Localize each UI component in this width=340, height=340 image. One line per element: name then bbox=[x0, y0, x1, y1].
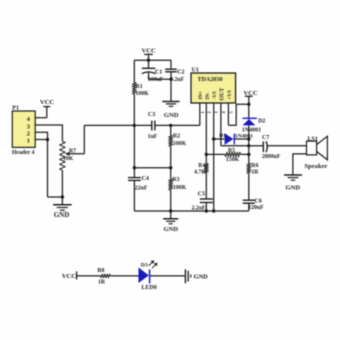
wire pin4 to VCC bbox=[35, 117, 47, 119]
svg-text:C1: C1 bbox=[155, 69, 162, 75]
svg-text:GND: GND bbox=[163, 226, 178, 233]
svg-text:1: 1 bbox=[200, 111, 205, 113]
svg-text:120uF: 120uF bbox=[248, 205, 264, 211]
svg-text:3: 3 bbox=[214, 111, 219, 114]
svg-text:1R: 1R bbox=[98, 279, 106, 285]
power VCC port (LED) bbox=[62, 271, 101, 280]
junction VCC column bbox=[247, 103, 250, 106]
svg-text:1: 1 bbox=[27, 138, 30, 145]
wire LED to GND port bbox=[150, 275, 184, 277]
svg-text:C4: C4 bbox=[142, 176, 149, 182]
wire feedback node bbox=[134, 167, 170, 169]
pin 5 stub bbox=[228, 103, 233, 125]
svg-text:2000uF: 2000uF bbox=[262, 154, 281, 160]
wire input net bbox=[84, 124, 151, 126]
svg-text:R4: R4 bbox=[198, 163, 205, 169]
junction R2 top bbox=[169, 124, 172, 127]
diode D2 bbox=[242, 118, 266, 133]
svg-text:D1: D1 bbox=[219, 133, 226, 139]
ground (C1 C2) bbox=[162, 79, 179, 119]
svg-text:R8: R8 bbox=[97, 268, 104, 274]
svg-text:VCC: VCC bbox=[141, 47, 156, 54]
svg-text:100K: 100K bbox=[136, 91, 150, 97]
junction pin1-pin2 bbox=[46, 138, 49, 141]
power VCC (header) bbox=[40, 99, 55, 118]
wire R8 to LED bbox=[110, 275, 138, 277]
connector P1 bbox=[12, 105, 35, 156]
junction output OUT bbox=[247, 144, 250, 147]
svg-text:1R: 1R bbox=[251, 170, 259, 176]
pin 4 stub bbox=[221, 103, 226, 146]
svg-text:IN-: IN- bbox=[205, 92, 211, 100]
capacitor C7 bbox=[262, 135, 281, 160]
svg-text:GND: GND bbox=[164, 112, 179, 119]
svg-text:Header 4: Header 4 bbox=[12, 150, 35, 156]
svg-text:100K: 100K bbox=[173, 185, 187, 191]
wire pin1 bbox=[35, 139, 47, 141]
svg-text:LS1: LS1 bbox=[308, 136, 318, 142]
svg-text:LED0: LED0 bbox=[141, 285, 156, 291]
junction R4 R5 bbox=[205, 153, 208, 156]
svg-text:C6: C6 bbox=[255, 198, 262, 204]
svg-text:D2: D2 bbox=[258, 118, 265, 124]
capacitor C6 bbox=[243, 173, 264, 211]
ground port (LED) bbox=[185, 269, 208, 283]
svg-text:TDA2030: TDA2030 bbox=[197, 77, 222, 83]
ground (rail) bbox=[163, 211, 178, 233]
diode D1 bbox=[214, 133, 253, 145]
svg-text:R2: R2 bbox=[173, 133, 180, 139]
junction pin3 D1 bbox=[212, 137, 215, 140]
junction output R5 bbox=[247, 153, 250, 156]
wire R3 to ground rail bbox=[170, 190, 172, 211]
svg-text:4.7K: 4.7K bbox=[194, 169, 206, 175]
capacitor C5 bbox=[192, 173, 213, 211]
pin 1 stub bbox=[200, 103, 205, 125]
svg-text:D3: D3 bbox=[141, 262, 148, 268]
svg-text:5: 5 bbox=[229, 111, 234, 114]
junction R1 input bbox=[133, 124, 136, 127]
svg-text:R3: R3 bbox=[173, 177, 180, 183]
junction ground left bbox=[61, 195, 64, 198]
svg-text:2: 2 bbox=[207, 111, 212, 113]
svg-text:-VS: -VS bbox=[212, 91, 218, 99]
resistor R8 bbox=[97, 268, 110, 285]
wire R7 bottom to ground bbox=[61, 170, 63, 197]
wire R7 wiper to input net bbox=[83, 125, 85, 153]
capacitor C1 bbox=[142, 60, 164, 83]
svg-text:100K: 100K bbox=[173, 141, 187, 147]
power VCC (amp) bbox=[243, 90, 258, 118]
ground (header) bbox=[53, 197, 72, 219]
junction VCC rail bbox=[147, 59, 150, 62]
wire R1 to input net bbox=[133, 94, 135, 125]
svg-text:1uF: 1uF bbox=[148, 134, 158, 140]
wire speaker return bbox=[293, 154, 307, 175]
svg-text:VCC: VCC bbox=[40, 99, 55, 106]
junction rail R3 bbox=[169, 209, 172, 212]
svg-text:OUT: OUT bbox=[220, 88, 226, 101]
resistor R5 bbox=[206, 148, 249, 163]
resistor R3 bbox=[169, 168, 187, 191]
svg-text:4: 4 bbox=[221, 111, 226, 114]
junction feedback R3 bbox=[169, 166, 172, 169]
svg-text:R6: R6 bbox=[251, 163, 258, 169]
wire ground rail left bbox=[48, 196, 63, 198]
svg-text:GND: GND bbox=[194, 273, 209, 280]
wire C1 bottom bbox=[149, 78, 172, 80]
svg-text:P1: P1 bbox=[12, 105, 19, 111]
ground (speaker) bbox=[284, 175, 302, 191]
resistor R1 bbox=[132, 83, 149, 98]
wire output to C7 bbox=[249, 145, 263, 147]
wire pin5 detour to VCC bbox=[228, 104, 248, 125]
wire C7 to speaker bbox=[267, 145, 306, 147]
svg-text:22uF: 22uF bbox=[135, 185, 148, 191]
svg-text:150K: 150K bbox=[226, 157, 240, 163]
LED D3 bbox=[139, 260, 158, 291]
resistor R2 bbox=[169, 125, 187, 147]
potentiometer R7 bbox=[60, 141, 85, 170]
svg-text:2.2uF: 2.2uF bbox=[192, 205, 206, 211]
svg-text:R7: R7 bbox=[69, 149, 76, 155]
svg-text:C5: C5 bbox=[198, 191, 205, 197]
junction C1-C2 bottom bbox=[169, 78, 172, 81]
capacitor C3 bbox=[148, 112, 158, 140]
wire pin3 to R7 bbox=[35, 125, 62, 141]
wire rail to R1 bbox=[133, 60, 135, 82]
wire OUT pin to output node bbox=[221, 145, 249, 147]
svg-text:R5: R5 bbox=[228, 148, 235, 154]
svg-text:C7: C7 bbox=[262, 135, 269, 141]
wire pin2 down bbox=[35, 132, 47, 197]
resistor R4 bbox=[194, 154, 208, 175]
pin 3 stub bbox=[214, 103, 219, 211]
capacitor C4 bbox=[128, 125, 149, 211]
wire output column bbox=[248, 125, 250, 163]
IC U1 TDA2030 bbox=[191, 68, 236, 103]
junction rail pin3 bbox=[212, 209, 215, 212]
resistor R6 bbox=[247, 163, 259, 176]
svg-text:+VS: +VS bbox=[227, 90, 233, 100]
svg-text:C3: C3 bbox=[148, 112, 155, 118]
wire VCC rail bbox=[134, 59, 171, 61]
svg-text:0.2uF: 0.2uF bbox=[170, 77, 184, 83]
svg-text:IN+: IN+ bbox=[198, 91, 204, 100]
svg-text:GND: GND bbox=[54, 211, 70, 219]
capacitor C2 bbox=[165, 60, 184, 83]
wire R2 to feedback node bbox=[170, 146, 172, 168]
junction rail C5 bbox=[205, 209, 208, 212]
svg-text:10K: 10K bbox=[63, 156, 74, 162]
svg-text:C2: C2 bbox=[177, 69, 184, 75]
svg-text:Speaker: Speaker bbox=[304, 163, 327, 170]
svg-text:3: 3 bbox=[27, 123, 30, 130]
speaker LS1 bbox=[304, 136, 327, 170]
wire ground rail bbox=[134, 210, 248, 212]
svg-text:VCC: VCC bbox=[62, 273, 77, 280]
svg-text:100uF: 100uF bbox=[148, 77, 164, 83]
wire C3 to IN+ bbox=[155, 124, 199, 126]
junction output D1 bbox=[247, 137, 250, 140]
pin 2 stub bbox=[206, 103, 211, 154]
svg-text:GND: GND bbox=[285, 184, 300, 191]
power VCC (rail) bbox=[141, 47, 156, 60]
junction feedback C4 bbox=[133, 166, 136, 169]
svg-text:R1: R1 bbox=[136, 84, 143, 90]
svg-text:2: 2 bbox=[27, 131, 30, 138]
